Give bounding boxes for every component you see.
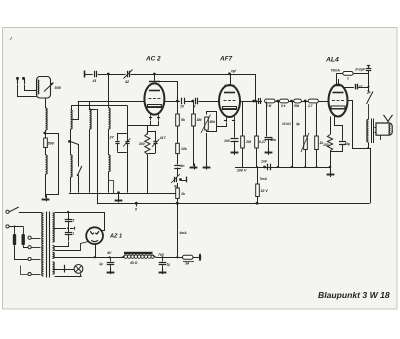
- AZ1 filament arc: [91, 240, 98, 241]
- wire AF7 chain top: [177, 101, 179, 114]
- wire HV center tap: [54, 228, 66, 230]
- speaker cone: [384, 115, 393, 123]
- svg-text:2M: 2M: [245, 140, 251, 144]
- mains switch S4: [9, 207, 19, 212]
- svg-text:2,7: 2,7: [307, 104, 313, 108]
- speaker box stub: [380, 135, 382, 140]
- svg-text:41: 41: [92, 79, 97, 83]
- wire AF7 top to IF input: [231, 75, 256, 102]
- capacitor C6 47 with arm: [174, 177, 176, 183]
- wire fuse B to tap: [24, 246, 29, 248]
- svg-text:3M: 3M: [197, 118, 202, 122]
- wire coupling line: [165, 101, 219, 103]
- svg-text:8 k: 8 k: [281, 104, 286, 108]
- mains terminal 1: [6, 210, 9, 213]
- wire coupler to antenna coil: [45, 98, 47, 108]
- resistor R10 150 zigzag: [327, 135, 332, 152]
- switch S3 speaker plug: [367, 92, 374, 105]
- wire rect filament feed: [55, 242, 89, 251]
- wire branch to switch: [71, 142, 79, 167]
- antenna coil L2 upper: [46, 108, 48, 130]
- ballast resistor body: [124, 252, 153, 255]
- svg-text:3A: 3A: [185, 262, 190, 266]
- pin AF7 right: [234, 117, 236, 123]
- ground antenna coil: [42, 199, 50, 201]
- wire chain mid1: [177, 126, 179, 143]
- wire AL4 anode right: [349, 101, 367, 149]
- wire R7 top: [256, 101, 258, 136]
- wire cathode join: [331, 145, 343, 152]
- wire gang1 loop bottom: [117, 152, 126, 154]
- wire antenna t1 to coupler: [18, 85, 37, 97]
- output jack lens: [199, 253, 201, 261]
- wire osc tank bottom: [147, 155, 149, 194]
- svg-text:50k: 50k: [294, 104, 300, 108]
- antenna coil L2 lower: [45, 148, 47, 156]
- wire dropper to bus: [257, 197, 259, 204]
- antenna terminal 1: [16, 77, 19, 80]
- wire cathode to ground: [330, 151, 332, 173]
- speaker magnet box: [376, 123, 392, 135]
- resistor R5 3M: [192, 114, 196, 126]
- wire L4 down to rail: [89, 129, 91, 193]
- svg-text:500: 500: [55, 86, 62, 90]
- ground RF rail: [117, 191, 120, 194]
- node L3 branch: [68, 140, 71, 143]
- wire osc column top: [108, 74, 110, 108]
- wire R7 bottom: [256, 148, 258, 167]
- wire heater to pilot bottom: [55, 274, 81, 277]
- pin AC2 left: [150, 114, 152, 120]
- grid cap AF7: [230, 74, 232, 86]
- wire AC2 left pin to gang: [128, 121, 151, 126]
- ballast winding loops: [124, 255, 127, 258]
- svg-text:5: 5: [73, 219, 75, 223]
- wire IF row link3: [301, 101, 308, 103]
- primary tap terminal 1: [28, 236, 31, 239]
- speck top left: [10, 37, 12, 40]
- wire HV cap chain: [68, 212, 70, 219]
- wire IF row link2: [289, 101, 294, 103]
- oscillator coil L6 zigzag: [145, 134, 150, 155]
- wire AZ1 cathode down: [95, 244, 97, 257]
- ground AL4 cathode: [327, 174, 335, 176]
- wire drop x316.5: [316, 103, 318, 136]
- wire RF ground rail: [69, 193, 178, 195]
- wire osc return x113: [109, 181, 114, 194]
- wire switch to OT: [368, 104, 370, 120]
- speaker field winding: [389, 124, 391, 135]
- capacitor C15 HV b: [65, 232, 73, 234]
- capacitor C9 in IF row: [258, 98, 260, 104]
- wire gang1 loop top: [117, 133, 126, 135]
- node antenna coil tap: [43, 132, 46, 135]
- ground C7: [231, 152, 239, 154]
- choke Dr5: [343, 72, 353, 76]
- coil L3 lower: [71, 155, 73, 177]
- wire L5 mid: [108, 129, 110, 155]
- resistor R7 0.27: [255, 136, 259, 148]
- capacitor C1 41 in AVC bus: [93, 71, 98, 77]
- wire R9 bottom: [316, 150, 318, 168]
- svg-text:4µ: 4µ: [295, 122, 300, 126]
- node AC2 grid cap junction: [153, 73, 156, 76]
- wire switch to rail: [78, 175, 80, 193]
- wire line2 corner to L3 top: [71, 106, 73, 111]
- output transformer T2 core: [371, 119, 373, 144]
- wire top AVC bus: [85, 74, 230, 76]
- node mid rail junctions: [277, 166, 279, 168]
- svg-text:0,27: 0,27: [259, 140, 267, 144]
- voltage selector fuse B: [23, 226, 25, 234]
- capacitor C14 HV a: [65, 219, 73, 221]
- svg-text:100: 100: [224, 139, 230, 143]
- pilot lamp: [74, 265, 83, 274]
- AZ1 anode right: [95, 231, 99, 234]
- resistor R2 5k: [176, 114, 180, 126]
- wire drop x293: [292, 101, 294, 167]
- capacitor C10 50u: [266, 102, 268, 137]
- svg-text:27: 27: [109, 136, 115, 140]
- switch S1 wave band: [78, 166, 82, 175]
- oscillator coil L5 upper: [109, 108, 111, 129]
- wire tap4 stub: [21, 266, 29, 275]
- wire pot arm loop: [207, 112, 217, 132]
- wire chain mid3: [177, 183, 179, 188]
- wire line1 tap to L3 coil: [73, 102, 79, 120]
- wire drop x278: [278, 101, 280, 167]
- wire plate supply vertical: [368, 73, 370, 91]
- wire AF7 cathode down: [234, 122, 236, 138]
- resistor R8 32V: [256, 184, 260, 197]
- wire mid rail right end: [326, 167, 331, 169]
- svg-text:Blaupunkt 3 W 18: Blaupunkt 3 W 18: [318, 290, 390, 300]
- svg-text:32 V: 32 V: [261, 189, 269, 193]
- wire antenna t2 to coupler: [25, 85, 37, 91]
- svg-text:150: 150: [323, 143, 329, 147]
- wire drop x306: [305, 101, 307, 136]
- wire IF row link: [275, 101, 280, 103]
- pin AC2 right: [158, 114, 160, 120]
- wire chain mid2: [177, 154, 179, 165]
- wire R6 bottom: [242, 148, 244, 167]
- svg-text:2 M: 2 M: [265, 104, 272, 108]
- potentiometer P2: [304, 136, 308, 150]
- capacitor C11 2x2uF: [368, 71, 370, 73]
- tuning capacitor CV1 plates: [115, 141, 119, 143]
- svg-text:AZ 1: AZ 1: [109, 234, 122, 240]
- svg-text:50µ: 50µ: [345, 142, 351, 146]
- capacitor C3 10: [180, 98, 185, 104]
- svg-text:10: 10: [180, 105, 184, 109]
- wire choke to corner: [353, 73, 368, 75]
- wire tap branch right and down: [46, 134, 59, 195]
- svg-text:50u: 50u: [271, 138, 277, 142]
- wire line2 corner to gang: [127, 106, 129, 111]
- grid cap AC2: [154, 74, 156, 81]
- resistor R9: [315, 136, 319, 150]
- capacitor C13 50uF: [339, 141, 346, 143]
- wire grid line1: [78, 101, 145, 103]
- tube V1 AC2 triode-hexode: [144, 83, 164, 114]
- coil L3 upper: [71, 110, 73, 129]
- wire ballast leads: [122, 256, 125, 258]
- mains terminal 2: [6, 225, 9, 228]
- ground pot: [203, 167, 211, 169]
- wire L3 to rail: [70, 177, 72, 193]
- wire grid line2: [71, 105, 127, 107]
- wire R6 top: [242, 101, 244, 136]
- wire L3 mid: [70, 129, 72, 155]
- capacitor C8 1n in mid rail: [263, 166, 266, 169]
- wire chassis bus: [97, 203, 370, 205]
- wire terminal2: [9, 226, 23, 228]
- svg-text:42: 42: [124, 80, 129, 84]
- wire filament line right: [163, 257, 183, 259]
- svg-text:1nF: 1nF: [261, 160, 268, 164]
- tube V2 AF7: [219, 85, 240, 117]
- wire chain2 top: [193, 101, 195, 114]
- svg-text:vgl: vgl: [231, 69, 236, 73]
- capacitor C5 4n: [174, 165, 181, 167]
- wire long vertical x97: [97, 109, 99, 193]
- wire AF7 anode to IF row: [240, 101, 262, 103]
- svg-text:70V: 70V: [158, 253, 165, 257]
- wire R11 to output jack: [193, 257, 199, 259]
- svg-text:4n: 4n: [180, 164, 185, 168]
- svg-text:417: 417: [159, 136, 167, 140]
- wire pot to ground: [206, 133, 208, 166]
- variable capacitor CV3 417: [153, 141, 157, 143]
- wire chain to bus: [177, 198, 179, 203]
- wire AL4 cathode down: [330, 117, 332, 135]
- svg-text:10 kΩ: 10 kΩ: [282, 122, 291, 126]
- tube V3 AL4 output pentode: [329, 85, 348, 117]
- wire B+ riser: [177, 203, 179, 257]
- wire IF row to AL4: [318, 101, 328, 103]
- transformer T1 rectifier filament winding: [53, 245, 55, 250]
- capacitor C4 8: [194, 98, 199, 104]
- wire osc tank top: [147, 126, 149, 135]
- voltage selector fuse A: [14, 226, 16, 234]
- svg-text:200 V: 200 V: [236, 169, 247, 173]
- wire OT bottom to bus: [368, 143, 370, 149]
- svg-text:45 Ω: 45 Ω: [129, 261, 138, 265]
- ground C10: [265, 152, 273, 154]
- grid cap AL4: [338, 79, 340, 85]
- svg-text:1: 1: [73, 232, 75, 236]
- terminal tick left end of AVC bus: [84, 71, 86, 78]
- padder capacitor CV2: [127, 105, 129, 141]
- svg-text:AC 2: AC 2: [145, 56, 161, 63]
- primary tap terminal 2: [28, 246, 31, 249]
- antenna coupler winding: [38, 80, 39, 94]
- IF choke Dr3: [294, 99, 302, 103]
- wire speaker links: [374, 127, 376, 129]
- ground chain2: [190, 167, 198, 169]
- resistor R4 1k: [176, 188, 180, 198]
- wire rail drop to chassis bus: [97, 193, 99, 204]
- capacitor C12 47: [355, 84, 357, 90]
- capacitor C7 100: [231, 138, 239, 140]
- svg-text:300: 300: [139, 142, 145, 146]
- svg-text:1µ: 1µ: [99, 262, 103, 266]
- primary tap terminal 3: [28, 257, 31, 260]
- AZ1 anode left: [90, 231, 94, 234]
- svg-text:7mA: 7mA: [260, 177, 268, 181]
- wire fuse A to tap: [15, 246, 29, 260]
- wire antenna coil to ground: [45, 174, 47, 198]
- potentiometer P1 50k: [205, 117, 209, 130]
- pin AF7 left: [226, 117, 228, 123]
- IF choke Dr2: [280, 99, 289, 103]
- resistor R3 10k: [176, 143, 180, 153]
- primary tap terminal 4: [28, 273, 31, 276]
- wire chain2 down: [193, 126, 195, 166]
- wire C7 to ground: [234, 141, 236, 152]
- svg-text:5: 5: [135, 208, 137, 212]
- svg-text:AF7: AF7: [219, 56, 233, 63]
- node bus junction 5: [135, 202, 138, 205]
- wire heater to pilot top: [54, 269, 74, 271]
- svg-text:AL4: AL4: [325, 57, 339, 64]
- wire dropper top: [257, 167, 259, 184]
- IF choke Dr4: [308, 99, 318, 103]
- wire HV top to AZ1 anode: [55, 213, 105, 231]
- wire L5 to rail: [108, 172, 110, 193]
- svg-text:4V: 4V: [106, 251, 112, 255]
- resistor R11 3A: [183, 255, 194, 259]
- wire screen lead up: [336, 73, 338, 84]
- capacitor C17 1uF right: [162, 257, 164, 261]
- wire cap 47 to vertical: [358, 87, 368, 89]
- svg-text:2×2µF: 2×2µF: [354, 68, 366, 72]
- wire AF7 left pin: [217, 123, 227, 127]
- wire mid rail 200V: [235, 167, 326, 169]
- wire filament line left: [54, 257, 124, 259]
- output transformer T2 primary: [367, 120, 369, 143]
- transformer T1 HV secondary: [53, 213, 55, 242]
- wire P2 bottom: [305, 150, 307, 168]
- svg-text:4mA: 4mA: [179, 231, 188, 235]
- oscillator coil L5 lower: [109, 155, 111, 172]
- trimmer capacitor C2 42: [125, 71, 130, 77]
- antenna coupler L1 box: [37, 77, 51, 99]
- node junction on AVC bus: [107, 73, 110, 76]
- transformer T1 core: [46, 212, 48, 278]
- transformer T1 heater winding C: [53, 262, 55, 274]
- transformer T1 primary winding: [42, 213, 44, 276]
- transformer T1 4V winding B: [53, 252, 55, 258]
- svg-text:500: 500: [48, 142, 55, 146]
- IF choke Dr1: [265, 99, 276, 103]
- coil L4: [90, 109, 92, 129]
- wire anode cap 47 lead: [343, 87, 354, 89]
- wire AC2 grid cap to coupling node: [158, 82, 178, 102]
- antenna terminal 2: [22, 77, 25, 80]
- wire L4 top stub: [89, 101, 91, 109]
- svg-text:1µ: 1µ: [167, 263, 171, 267]
- resistor R1 500: [44, 138, 48, 148]
- resistor R6 2M: [241, 136, 245, 148]
- tube V4 AZ1 envelope: [86, 227, 103, 244]
- wire AC2 right pin to osc tank: [148, 121, 159, 126]
- arrow variable coupling 500: [44, 83, 54, 92]
- svg-text:70mA: 70mA: [331, 68, 341, 72]
